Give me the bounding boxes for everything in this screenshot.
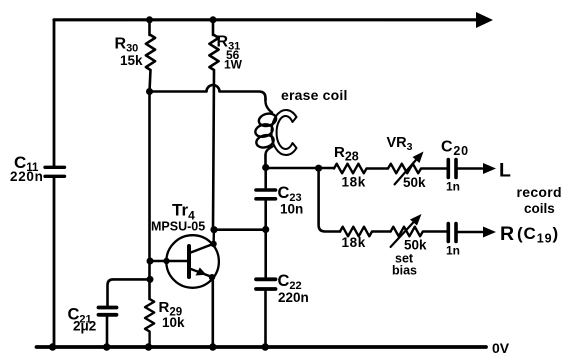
node: collector exit xyxy=(210,241,216,247)
node: bottom rail / R29 xyxy=(145,343,152,350)
svg-text:L: L xyxy=(499,160,511,182)
svg-text:bias: bias xyxy=(392,264,417,278)
node: bottom rail / C22 xyxy=(262,343,269,350)
node: collector top junction xyxy=(210,226,217,233)
VR3 wiper arrow xyxy=(395,157,419,185)
node: L-row / R-row takeoff junction xyxy=(315,165,322,172)
svg-text:MPSU-05: MPSU-05 xyxy=(151,220,205,234)
svg-text:18k: 18k xyxy=(342,235,366,250)
svg-text:C22: C22 xyxy=(278,272,302,292)
R output arrowhead xyxy=(483,227,496,238)
wire: coil bottom to node A xyxy=(264,155,267,168)
capacitor C23 xyxy=(256,190,276,199)
node: R30 / bias wire junction xyxy=(146,88,153,95)
resistor R29 xyxy=(145,299,154,347)
capacitor C21 xyxy=(99,308,117,315)
top supply rail xyxy=(54,18,478,21)
node: top rail / R31 junction xyxy=(210,16,217,23)
node: bottom rail / left wire xyxy=(49,343,56,350)
node: base / R30-R29 vertical junction xyxy=(147,258,154,265)
svg-text:220n: 220n xyxy=(278,290,309,305)
svg-text:1n: 1n xyxy=(446,244,460,258)
svg-text:erase coil: erase coil xyxy=(281,87,348,103)
svg-text:0V: 0V xyxy=(492,340,510,356)
node: emitter exit xyxy=(209,274,215,280)
erase coil C-shaped core xyxy=(271,110,296,155)
wire: R30/R29 vertical (bias divider) xyxy=(148,92,151,300)
potentiometer VR3 xyxy=(388,164,447,174)
capacitor C20 xyxy=(448,160,456,178)
svg-text:10k: 10k xyxy=(162,315,185,330)
potentiometer 50k set-bias (R row) xyxy=(391,227,447,237)
Tr4 collector lead xyxy=(190,231,214,253)
wire: C19 to R output arrow xyxy=(458,231,482,234)
svg-text:C20: C20 xyxy=(441,139,469,159)
node: top rail / R30 junction xyxy=(146,16,153,23)
transistor Tr4 body circle xyxy=(166,235,219,288)
wire: emitter to bottom rail xyxy=(212,277,215,347)
wire: C21 to bottom rail xyxy=(106,317,109,348)
svg-text:1W: 1W xyxy=(224,58,243,72)
svg-text:record: record xyxy=(517,184,562,200)
resistor 18k (R row) xyxy=(340,227,391,237)
resistor R30 xyxy=(146,20,155,92)
wire: C23 to C22 segment xyxy=(264,201,267,277)
svg-text:15k: 15k xyxy=(120,53,143,68)
node: bottom rail / emitter xyxy=(209,343,216,350)
wire: C23 chain top segment xyxy=(264,168,267,188)
svg-text:2μ2: 2μ2 xyxy=(73,319,96,334)
capacitor C22 xyxy=(256,279,276,289)
wire: base xyxy=(150,260,188,263)
svg-text:18k: 18k xyxy=(342,175,366,190)
svg-text:R30: R30 xyxy=(115,36,139,55)
resistor R28 xyxy=(334,164,388,174)
wire: bias line from R30 bottom with hop over R31 wire xyxy=(150,85,266,100)
left rail wire xyxy=(53,21,56,348)
wire: C21 top connection xyxy=(108,279,151,305)
svg-text:10n: 10n xyxy=(280,202,303,217)
svg-text:50k: 50k xyxy=(403,175,426,190)
wire: collector node to C23-C22 junction xyxy=(214,228,266,231)
wire: C22 to bottom rail xyxy=(264,292,267,348)
Tr4 base bar xyxy=(187,246,191,277)
node: C21 wire junction xyxy=(147,276,154,283)
50k wiper arrow (R row) xyxy=(391,219,417,247)
svg-text:coils: coils xyxy=(524,201,555,216)
node A: coil bottom / C23 / record feed junction xyxy=(262,164,269,171)
node: base at circle edge xyxy=(163,258,169,264)
svg-text:220n: 220n xyxy=(10,169,44,184)
L output arrowhead xyxy=(483,163,496,174)
top rail arrowhead xyxy=(476,12,493,28)
wire: C20 to L output arrow xyxy=(458,167,482,170)
resistor R31 xyxy=(209,20,218,230)
svg-text:R28: R28 xyxy=(334,144,359,164)
svg-text:1n: 1n xyxy=(446,180,460,194)
node: collector / C23-C22 junction xyxy=(262,226,269,233)
wire: takeoff down to R-row xyxy=(319,168,340,231)
erase coil winding (3 loops) xyxy=(265,99,272,113)
svg-text:(C19): (C19) xyxy=(517,224,559,246)
bottom rail (0V) xyxy=(37,345,487,349)
capacitor C11 xyxy=(45,167,65,176)
svg-text:VR3: VR3 xyxy=(387,135,413,153)
capacitor C19 xyxy=(448,224,456,242)
svg-text:R: R xyxy=(500,223,514,245)
Tr4 emitter lead with arrow xyxy=(190,269,213,278)
node: bottom rail / C21 xyxy=(103,343,110,350)
svg-text:50k: 50k xyxy=(404,238,427,253)
wire: node A to L-row xyxy=(266,167,334,170)
